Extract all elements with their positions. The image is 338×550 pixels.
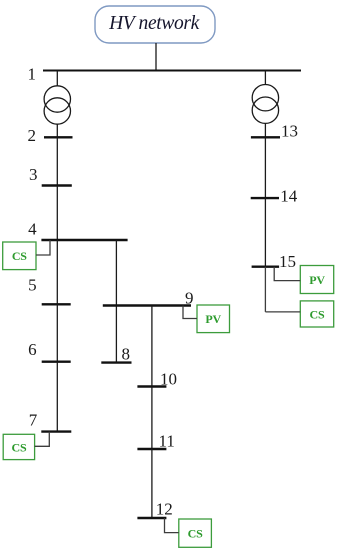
svg-text:15: 15: [279, 252, 296, 271]
wire bus 11 to bus 12: [151, 449, 153, 518]
wire bus 10 to bus 11: [151, 387, 153, 450]
bus 14 busbar: [251, 197, 279, 199]
svg-text:CS: CS: [12, 249, 27, 263]
svg-text:10: 10: [160, 370, 177, 389]
bus 6 busbar: [42, 361, 71, 363]
svg-text:6: 6: [28, 340, 37, 359]
svg-text:8: 8: [122, 345, 131, 364]
wire CS box to bus 15 drop: [265, 311, 300, 313]
svg-text:12: 12: [156, 500, 173, 519]
svg-text:11: 11: [159, 432, 175, 451]
bus 8 busbar: [101, 361, 131, 363]
svg-text:CS: CS: [310, 307, 325, 321]
CS box at bus 12: [179, 519, 212, 547]
wire bus 1 to transformer T1: [56, 71, 58, 87]
svg-text:14: 14: [280, 187, 298, 206]
wire bus 13 to bus 14: [264, 137, 266, 198]
bus 13 busbar: [251, 136, 280, 138]
svg-text:4: 4: [28, 220, 37, 239]
wire bus 4 to bus 8 feeder: [115, 240, 117, 363]
svg-text:7: 7: [29, 411, 38, 430]
CS box at bus 15: [300, 301, 333, 327]
wire PV box to bus 9: [183, 306, 197, 319]
wire bus 14 to bus 15: [264, 198, 266, 267]
wire CS box to bus 7: [35, 432, 50, 447]
wire PV box to bus 15: [274, 267, 300, 281]
bus 10 busbar: [137, 385, 166, 387]
bus 12 busbar: [137, 517, 166, 519]
svg-text:PV: PV: [309, 273, 325, 287]
HV network box: [95, 6, 215, 43]
svg-text:HV network: HV network: [108, 13, 200, 34]
transformer T2: [252, 85, 278, 124]
wire bus 6 to bus 7: [56, 362, 58, 432]
CS box at bus 7: [3, 434, 34, 459]
bus 11 busbar: [137, 448, 166, 450]
wire bus 5 to bus 6: [56, 304, 58, 361]
PV box at bus 9: [197, 305, 230, 333]
svg-text:PV: PV: [205, 312, 221, 326]
bus 5 busbar: [42, 303, 71, 305]
svg-text:9: 9: [185, 289, 194, 308]
bus 3 busbar: [42, 184, 72, 186]
wire bus 15 to CS drop: [264, 267, 266, 312]
svg-text:CS: CS: [188, 527, 203, 541]
svg-text:2: 2: [28, 126, 37, 145]
bus 4 busbar: [41, 239, 127, 241]
bus 15 busbar: [252, 266, 280, 268]
bus 9 busbar: [103, 304, 191, 306]
bus 7 busbar: [41, 430, 71, 432]
svg-text:1: 1: [28, 65, 37, 84]
svg-text:13: 13: [281, 122, 298, 141]
wire CS box to bus 12: [165, 518, 179, 533]
wire T2 to bus 13: [264, 123, 266, 137]
wire bus 2 to bus 3: [56, 137, 58, 185]
transformer T1: [44, 86, 70, 124]
wire CS box to bus 4: [36, 240, 50, 255]
bus 2 busbar: [44, 136, 73, 138]
wire HV box to bus 1: [155, 43, 157, 71]
wire bus 3 to bus 4: [56, 186, 58, 241]
PV box at bus 15: [300, 266, 333, 294]
svg-text:3: 3: [29, 165, 38, 184]
bus 1 busbar: [43, 70, 301, 72]
wire bus 1 to transformer T2: [264, 71, 266, 85]
CS box at bus 4: [3, 242, 36, 270]
wire bus 4 to bus 5: [56, 240, 58, 304]
svg-text:CS: CS: [12, 441, 27, 455]
svg-text:5: 5: [28, 276, 37, 295]
wire T1 to bus 2: [56, 124, 58, 137]
wire bus 9 to bus 10 feeder: [151, 306, 153, 387]
